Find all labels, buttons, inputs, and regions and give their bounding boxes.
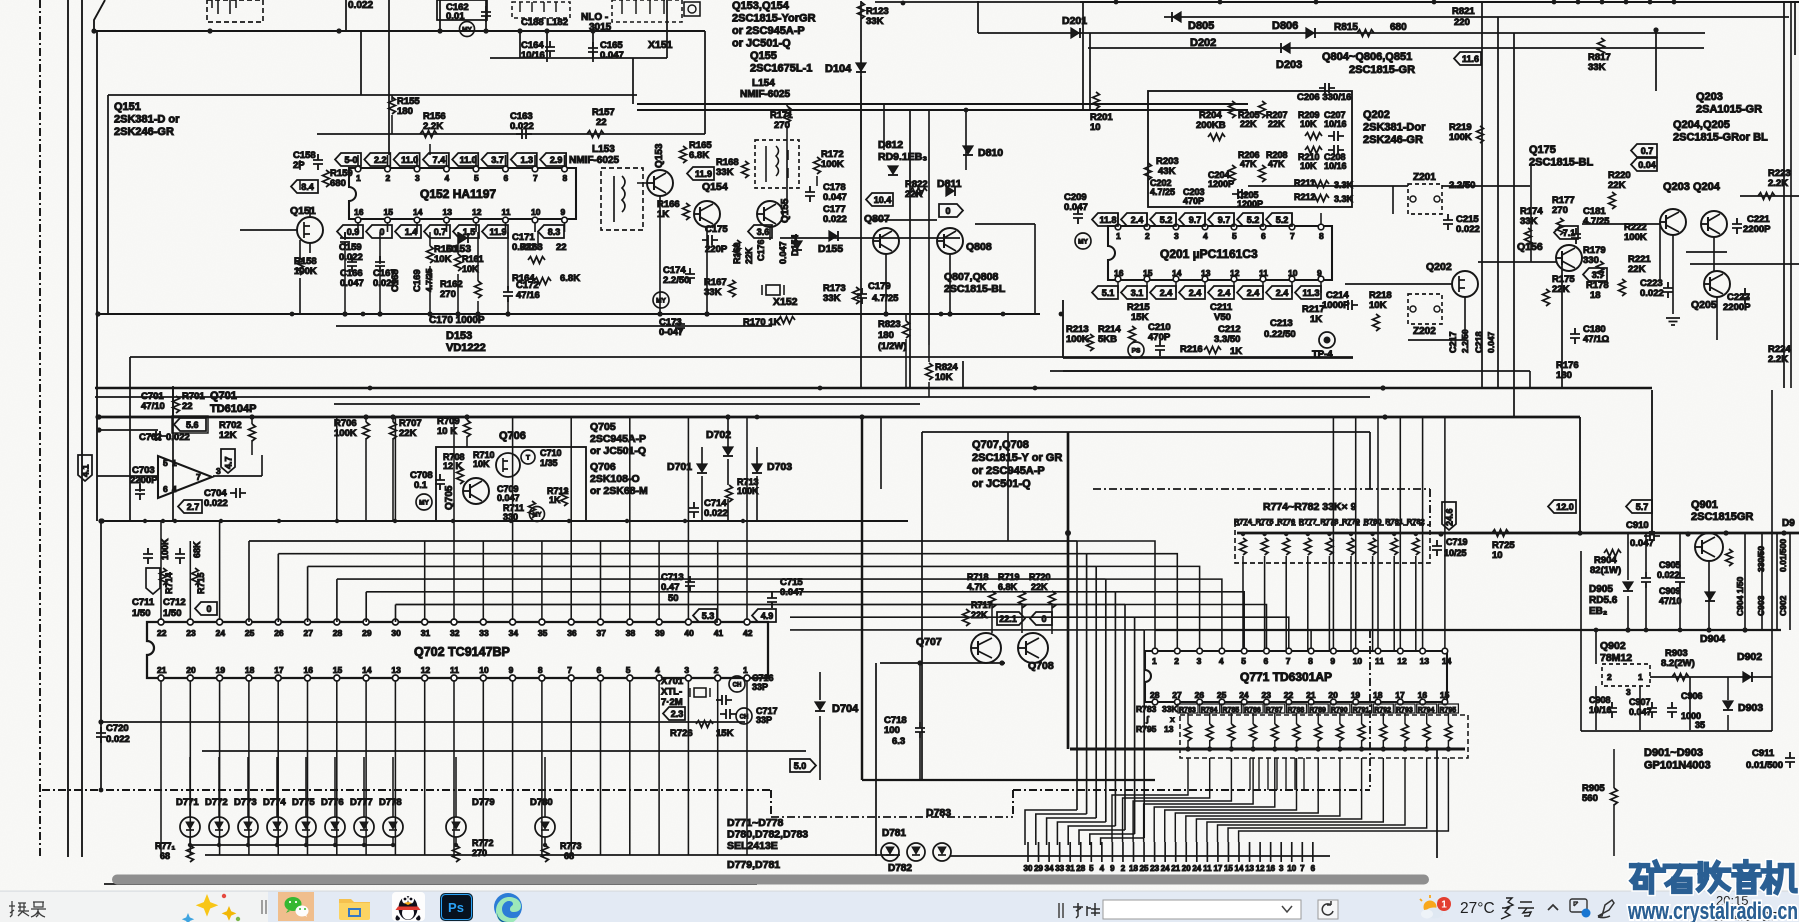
- wire: [172, 386, 174, 417]
- svg-text:D775: D775: [292, 797, 315, 808]
- R204 block box: [1148, 91, 1352, 207]
- pin circle top 11: [1375, 648, 1381, 654]
- svg-text:8: 8: [538, 665, 543, 675]
- svg-text:NMIF-6025: NMIF-6025: [740, 89, 790, 100]
- diode D203: [1282, 43, 1290, 53]
- callout 11.3: [1295, 286, 1321, 299]
- resistor box label R784: [1200, 704, 1220, 713]
- wire terminal tick 12: [1259, 842, 1261, 862]
- diode D703: [752, 464, 762, 472]
- svg-text:12: 12: [1230, 268, 1240, 278]
- svg-text:0.022: 0.022: [1456, 224, 1480, 235]
- wire y371 ext: [1063, 370, 1530, 372]
- wire pin stub top: [387, 155, 389, 168]
- junction y417: [755, 415, 760, 420]
- wire: [1428, 416, 1448, 418]
- junction y749: [1446, 746, 1451, 751]
- svg-text:2.2/50: 2.2/50: [663, 275, 689, 286]
- wire: [251, 440, 253, 455]
- capacitor C164: [545, 41, 555, 57]
- diode D811: [946, 186, 954, 196]
- junction: [505, 311, 510, 316]
- wire terminal tick 29: [1038, 842, 1040, 862]
- svg-text:X151: X151: [648, 39, 673, 51]
- transistor Q708: [1018, 633, 1048, 663]
- wire: [1274, 740, 1276, 749]
- resistor R161: [455, 254, 462, 271]
- svg-text:4.1: 4.1: [81, 464, 91, 477]
- svg-text:RD9.1EB₃: RD9.1EB₃: [878, 151, 927, 163]
- wire staircase h6: [790, 616, 1135, 618]
- diode D904: [1705, 592, 1715, 600]
- wire pin stub bottom: [475, 219, 477, 232]
- svg-text:4.7/25: 4.7/25: [424, 268, 434, 292]
- svg-text:3: 3: [1279, 864, 1284, 873]
- wire pin stub top: [1146, 213, 1148, 226]
- pin circle 6: [598, 675, 604, 681]
- svg-text:22: 22: [596, 117, 607, 128]
- wire: [1761, 533, 1763, 630]
- wire Q204 emitter drop: [1713, 237, 1715, 271]
- svg-text:11: 11: [502, 207, 511, 217]
- svg-text:R786: R786: [1244, 707, 1261, 714]
- svg-text:VD1222: VD1222: [446, 342, 486, 354]
- svg-text:11.3: 11.3: [1302, 288, 1319, 298]
- wire: [1361, 740, 1363, 749]
- callout 11.0: [394, 153, 420, 166]
- svg-text:L153: L153: [592, 144, 615, 155]
- junction: [1382, 414, 1387, 419]
- pin circle 11: [451, 675, 457, 681]
- IF transformer L153 dashed: [601, 168, 643, 230]
- capacitor C209: [1073, 208, 1083, 224]
- svg-text:2SC1815GR: 2SC1815GR: [1691, 511, 1753, 523]
- wire: [1645, 533, 1647, 572]
- wire: [1595, 686, 1597, 730]
- wire: [1294, 758, 1296, 790]
- wire Q201 block bottom: [1063, 357, 1353, 359]
- capacitor C207: [1328, 131, 1344, 141]
- svg-text:2SC1675L-1: 2SC1675L-1: [750, 63, 812, 75]
- svg-text:10K: 10K: [473, 459, 490, 469]
- wire pin riser: [746, 521, 748, 620]
- wire pin drop: [658, 681, 660, 855]
- Q902 body dashed: [1602, 664, 1650, 686]
- wire terminal tick 11: [1206, 842, 1208, 862]
- svg-text:D782: D782: [888, 863, 912, 874]
- svg-text:18: 18: [1129, 864, 1138, 873]
- pin circle: [1231, 224, 1237, 230]
- wire: [537, 232, 539, 250]
- junction top bus: [1624, 0, 1629, 4]
- resistor R783: [1185, 724, 1192, 741]
- junction: [173, 519, 177, 523]
- pin circle 20: [187, 675, 193, 681]
- wire: [344, 248, 346, 314]
- wire terminal tick 6: [1312, 842, 1314, 862]
- wire pin stub top: [505, 155, 507, 168]
- capacitor C214: [1342, 300, 1358, 310]
- junction y749: [1359, 746, 1364, 751]
- pin circle: [1173, 224, 1179, 230]
- svg-text:D811: D811: [937, 178, 962, 190]
- taskbar address combobox: [1103, 900, 1301, 919]
- wire R786 drop: [1144, 758, 1253, 842]
- resistor box label R790: [1330, 704, 1350, 713]
- wire: [388, 0, 390, 155]
- junction LED rail: [217, 843, 221, 847]
- junction y521: [335, 519, 339, 523]
- diode D806: [1306, 28, 1314, 38]
- wire D777 cathode: [363, 837, 365, 845]
- svg-text:12: 12: [421, 665, 431, 675]
- wire: [1645, 588, 1647, 630]
- junction: [1065, 530, 1071, 536]
- svg-text:D771~D778: D771~D778: [727, 817, 783, 829]
- resistor R779: [1348, 538, 1355, 555]
- svg-text:10: 10: [1492, 550, 1503, 561]
- wire: [1034, 224, 1036, 314]
- resistor R788: [1293, 724, 1300, 741]
- wire: [756, 447, 758, 464]
- svg-text:34: 34: [1045, 864, 1054, 873]
- wire: [1776, 533, 1778, 630]
- svg-text:R784: R784: [1201, 707, 1218, 714]
- LED D771: [180, 817, 200, 837]
- taskbar background: [0, 891, 1799, 922]
- wire: [392, 417, 394, 422]
- wire: [457, 274, 459, 314]
- wire: [544, 837, 546, 845]
- svg-text:C905: C905: [1659, 560, 1681, 570]
- callout 4.1: [78, 455, 92, 481]
- svg-text:R170 1K: R170 1K: [743, 317, 781, 328]
- wire pin drop: [746, 681, 748, 855]
- wire terminal tick 14: [1238, 842, 1240, 862]
- svg-text:D153: D153: [446, 330, 472, 342]
- svg-text:D779: D779: [472, 797, 495, 808]
- wire mid bus B: [637, 109, 1248, 111]
- wire top bus right: [1080, 1, 1799, 3]
- wire Q701 block left: [172, 388, 174, 521]
- wire Q203 base line: [1582, 223, 1660, 225]
- wire pin stub bottom: [387, 219, 389, 232]
- callout 1.5: [453, 225, 479, 238]
- wire D772 cathode: [218, 837, 220, 845]
- zener block Z202 dashed: [1408, 294, 1442, 324]
- wire: [507, 299, 509, 314]
- wire: [104, 883, 757, 885]
- diode D903: [1723, 701, 1733, 709]
- svg-text:7: 7: [196, 472, 201, 482]
- junction: [859, 414, 864, 419]
- wire: [1187, 713, 1189, 724]
- junction: [1306, 532, 1310, 536]
- wire: [1187, 740, 1189, 749]
- wire R784 drop: [1123, 758, 1210, 842]
- wire bus y432: [922, 431, 1370, 433]
- svg-text:Q151: Q151: [114, 101, 141, 113]
- callout 12.0: [1548, 500, 1576, 513]
- wire LED feed bus: [101, 721, 745, 723]
- callout 0: [1030, 612, 1052, 625]
- capacitor C908: [1607, 702, 1617, 718]
- wire pin drop: [277, 681, 279, 855]
- svg-text:3: 3: [415, 173, 420, 183]
- wire: [704, 31, 706, 134]
- resistor R714: [160, 568, 167, 585]
- svg-text:1: 1: [743, 665, 748, 675]
- wire: [1317, 740, 1319, 749]
- svg-text:68: 68: [564, 851, 574, 861]
- svg-text:0: 0: [945, 206, 950, 216]
- svg-text:5: 5: [1241, 656, 1246, 666]
- svg-text:Q152 HA1197: Q152 HA1197: [420, 187, 496, 201]
- pin circle bottom 16: [1420, 699, 1426, 705]
- resistor R205: [1229, 101, 1236, 118]
- capacitor C174: [685, 268, 695, 284]
- svg-text:1: 1: [356, 173, 361, 183]
- wire: [1303, 758, 1305, 790]
- wire: [727, 459, 729, 485]
- pin circle: [473, 166, 479, 172]
- resistor R784: [1206, 724, 1213, 741]
- svg-text:8.2(2W): 8.2(2W): [1661, 658, 1695, 669]
- taskbar WeChat icon: [278, 892, 314, 921]
- svg-text:11: 11: [1259, 268, 1268, 278]
- wire D773 cathode: [247, 837, 249, 845]
- callout 2.4: [1150, 286, 1176, 299]
- svg-text:68K: 68K: [192, 541, 202, 558]
- transistor Q205: [1704, 271, 1730, 297]
- diode D810: [963, 146, 973, 154]
- svg-text:Q155: Q155: [750, 50, 777, 62]
- wire: [1650, 676, 1772, 678]
- wire: [299, 160, 301, 170]
- capacitor C181: [1571, 228, 1581, 244]
- wire terminal tick 3: [1280, 842, 1282, 862]
- svg-text:X152: X152: [773, 296, 798, 308]
- wire: [1361, 713, 1363, 724]
- symbol T: [521, 450, 535, 464]
- junction y388: [1033, 386, 1038, 391]
- svg-text:22K: 22K: [744, 247, 754, 264]
- taskbar QQ icon: [392, 892, 425, 921]
- svg-text:4.7/25: 4.7/25: [1583, 216, 1610, 227]
- wire dash-dot step: [770, 790, 772, 817]
- pin circle 15: [334, 675, 340, 681]
- resistor R824: [926, 363, 933, 380]
- wire pin riser: [541, 541, 543, 620]
- wire R792 drop: [1207, 758, 1383, 842]
- svg-text:27: 27: [1172, 690, 1182, 700]
- wire top bus 4: [1088, 47, 1704, 49]
- wire right line y264: [1690, 263, 1799, 265]
- wire: [299, 180, 301, 190]
- pin circle top 13: [1420, 648, 1426, 654]
- wire pin stub top: [1262, 213, 1264, 226]
- junction: [1414, 532, 1418, 536]
- wire pin riser: [189, 541, 191, 620]
- svg-text:3.3K: 3.3K: [1334, 180, 1354, 190]
- junction y314: [658, 312, 663, 317]
- svg-text:0.022: 0.022: [348, 0, 373, 11]
- trimmer box: [684, 2, 700, 16]
- wire Z201 out: [1442, 185, 1530, 187]
- wire dash-dot left rail: [39, 0, 41, 858]
- wire top bus left: [875, 1, 1080, 3]
- wire staircase h3: [337, 578, 1106, 580]
- svg-text:10: 10: [1090, 122, 1101, 133]
- svg-text:R788: R788: [1288, 707, 1305, 714]
- wire: [457, 232, 459, 254]
- svg-text:R821: R821: [1452, 6, 1475, 17]
- svg-text:NMIF-6025: NMIF-6025: [569, 155, 619, 166]
- pin circle top 12: [1398, 648, 1404, 654]
- junction: [901, 1, 906, 6]
- wire Q202 source drop: [1464, 297, 1466, 340]
- callout 5-0: [335, 153, 361, 166]
- svg-text:0.022: 0.022: [204, 498, 228, 509]
- wire: [1252, 713, 1254, 724]
- capacitor C717: [720, 709, 736, 719]
- svg-text:9: 9: [1330, 656, 1335, 666]
- pin circle: [385, 217, 391, 223]
- transistor Q156: [1556, 245, 1582, 271]
- capacitor C702: [150, 431, 166, 441]
- symbol MY: [653, 292, 669, 308]
- wire: [786, 160, 788, 204]
- svg-text:22K: 22K: [1628, 264, 1646, 275]
- wire R223 line: [1740, 195, 1799, 197]
- svg-text:5.0: 5.0: [794, 761, 807, 771]
- taskbar separator: [262, 900, 266, 914]
- wire Q202 gate line: [1345, 283, 1452, 285]
- svg-text:0.047: 0.047: [823, 192, 847, 203]
- svg-text:8.4: 8.4: [301, 182, 314, 192]
- svg-text:C168: C168: [390, 269, 401, 292]
- wire: [1727, 677, 1729, 700]
- wire R783 drop: [1112, 758, 1188, 842]
- svg-text:180: 180: [1556, 370, 1572, 381]
- svg-text:R775: R775: [1256, 517, 1274, 526]
- wire pin drop: [424, 681, 426, 855]
- svg-text:15: 15: [384, 207, 394, 217]
- resistor R771: [187, 845, 194, 862]
- svg-text:D9: D9: [1782, 518, 1795, 529]
- diode D201: [1071, 28, 1079, 38]
- wire pin drop: [248, 681, 250, 855]
- svg-text:180: 180: [397, 106, 413, 117]
- pin circle bottom 25: [1219, 699, 1225, 705]
- wire LED feed bus 2: [202, 750, 806, 752]
- callout 5.2: [1150, 213, 1176, 226]
- svg-text:200KB: 200KB: [1196, 120, 1226, 131]
- resistor R223: [1758, 193, 1775, 200]
- svg-text:5KB: 5KB: [1098, 334, 1117, 345]
- junction y521: [451, 519, 455, 523]
- svg-text:13: 13: [1420, 656, 1430, 666]
- taskbar weather icon: [1420, 895, 1451, 919]
- svg-text:0.047: 0.047: [1064, 202, 1088, 213]
- wire pin stub bottom: [505, 219, 507, 232]
- svg-text:D783: D783: [926, 807, 951, 819]
- capacitor C173: [675, 318, 685, 334]
- svg-text:C711: C711: [132, 597, 155, 608]
- wire Q707 emitter line: [880, 662, 1005, 664]
- resistor R707: [390, 422, 397, 439]
- junction LED rail: [391, 843, 395, 847]
- svg-text:27: 27: [304, 628, 314, 638]
- wire: [1404, 713, 1406, 724]
- potentiometer R204: [1208, 134, 1225, 141]
- wire R782 drop: [1415, 556, 1417, 651]
- pin circle bottom 20: [1331, 699, 1337, 705]
- svg-text:R719: R719: [998, 572, 1020, 582]
- svg-text:33K: 33K: [866, 16, 884, 27]
- pin circle 30: [392, 619, 398, 625]
- wire staircase jog 5: [1079, 830, 1125, 845]
- pin circle: [355, 166, 361, 172]
- pin circle: [385, 166, 391, 172]
- resistor R905: [1611, 788, 1618, 805]
- resistor R171: [784, 106, 791, 123]
- wire R775 drop: [1264, 556, 1266, 651]
- svg-text:15K: 15K: [1131, 312, 1149, 323]
- pin circle 16: [305, 675, 311, 681]
- svg-text:14: 14: [1442, 656, 1452, 666]
- capacitor C206: [1319, 83, 1335, 93]
- capacitor C715: [767, 592, 777, 608]
- svg-text:680: 680: [330, 178, 346, 189]
- callout 0.7: [424, 225, 450, 238]
- wire pin stub bottom: [1262, 280, 1264, 293]
- svg-text:D776: D776: [321, 797, 344, 808]
- capacitor C222: [1740, 288, 1750, 304]
- svg-text:12K: 12K: [219, 430, 237, 441]
- resistor box label R791: [1352, 704, 1372, 713]
- diode D155: [829, 231, 837, 241]
- LED D778: [383, 817, 403, 837]
- junction: [249, 414, 254, 419]
- svg-text:XTL-: XTL-: [661, 687, 682, 698]
- svg-text:22: 22: [157, 628, 167, 638]
- capacitor C175: [702, 235, 718, 245]
- wire pin stub bottom: [357, 219, 359, 232]
- wire D774 anode: [276, 757, 278, 817]
- capacitor C713: [685, 576, 695, 592]
- wire staircase jog 6: [1090, 834, 1135, 845]
- wire: [1426, 713, 1428, 724]
- wire riser upper: [453, 417, 455, 521]
- callout 5.2: [1266, 213, 1292, 226]
- wire: [429, 232, 431, 246]
- svg-text:12: 12: [472, 207, 482, 217]
- wire staircase right drop 2: [1095, 566, 1097, 818]
- resistor R156: [420, 131, 437, 138]
- wire: [1339, 740, 1341, 749]
- resistor R717: [963, 609, 970, 626]
- svg-text:100K: 100K: [821, 159, 844, 170]
- resistor R711: [529, 501, 536, 518]
- wire R791 drop: [1196, 758, 1361, 842]
- wire: [962, 361, 964, 387]
- resistor R221: [1619, 279, 1626, 296]
- svg-text:1/50: 1/50: [163, 608, 182, 619]
- svg-text:Q202: Q202: [1426, 261, 1452, 273]
- wire pin drop: [541, 681, 543, 855]
- svg-text:MY: MY: [1078, 239, 1088, 246]
